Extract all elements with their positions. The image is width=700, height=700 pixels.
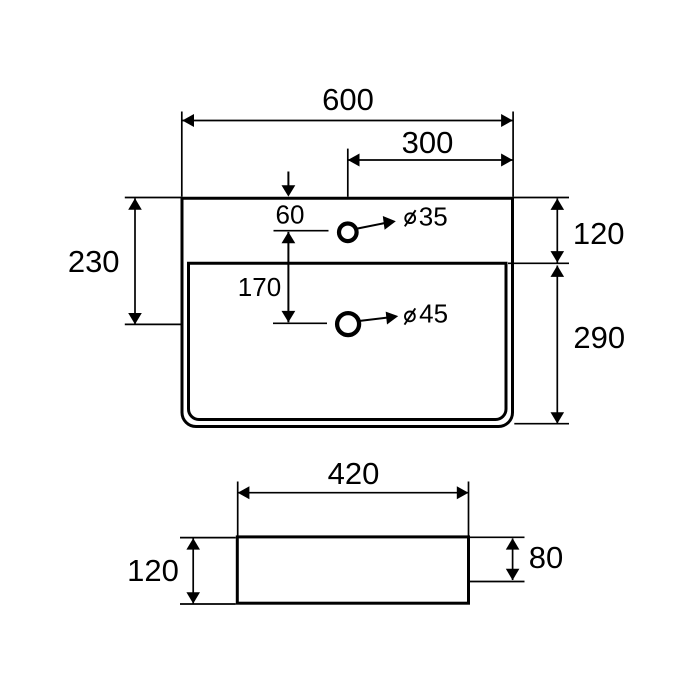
dimension 420 [238,456,469,536]
svg-text:300: 300 [402,125,454,160]
dimension 230 [68,198,181,325]
side profile rectangle (bottom view) [237,537,468,603]
dimension 600 [182,82,513,197]
svg-text:230: 230 [68,244,120,279]
dimension 300 [348,125,513,197]
svg-text:600: 600 [322,82,374,117]
drain hole circle [337,313,359,335]
basin inner rim outline [189,263,507,419]
svg-text:120: 120 [573,216,625,251]
leader and label diameter 35 [358,202,448,232]
svg-text:290: 290 [573,320,625,355]
dimension 80 [470,537,563,581]
svg-text:80: 80 [529,540,563,575]
dimension 120 (profile height) [127,538,236,604]
faucet hole circle [339,224,357,242]
dimension 120 (right, rim band) [508,198,625,264]
svg-text:420: 420 [328,456,380,491]
svg-text:170: 170 [238,272,281,302]
basin outer outline (top view) [182,198,513,426]
svg-text:60: 60 [276,200,305,230]
svg-text:45: 45 [419,298,448,328]
svg-text:120: 120 [127,553,179,588]
dimension 290 [514,266,625,424]
dimension 60 (top edge to faucet hole) [274,172,329,231]
dimension 170 (faucet hole to drain hole) [238,232,327,323]
svg-text:35: 35 [419,202,448,232]
leader and label diameter 45 [360,298,448,328]
